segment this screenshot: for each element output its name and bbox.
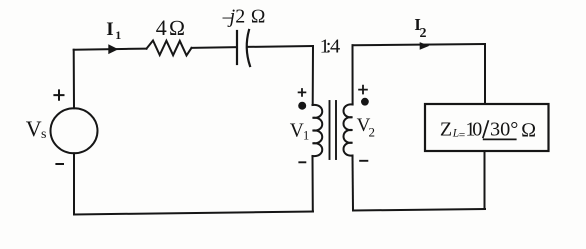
- svg-text:Ω: Ω: [251, 7, 266, 28]
- svg-text:30°: 30°: [490, 118, 518, 140]
- svg-text:4: 4: [156, 15, 167, 40]
- svg-text:Ω: Ω: [521, 119, 536, 141]
- svg-text:2: 2: [420, 26, 427, 41]
- svg-text:0: 0: [472, 118, 482, 140]
- svg-text:1: 1: [115, 28, 121, 42]
- svg-text:2: 2: [369, 124, 376, 139]
- svg-text:4: 4: [330, 36, 340, 58]
- svg-text:V: V: [26, 116, 42, 141]
- svg-text:=: =: [459, 129, 466, 141]
- svg-text:Ω: Ω: [169, 16, 186, 40]
- svg-text:1: 1: [303, 129, 309, 143]
- svg-text:V: V: [290, 121, 304, 142]
- svg-text:s: s: [41, 127, 46, 142]
- svg-text:Z: Z: [440, 118, 452, 140]
- svg-text:2: 2: [235, 6, 245, 28]
- svg-text:I: I: [106, 19, 113, 40]
